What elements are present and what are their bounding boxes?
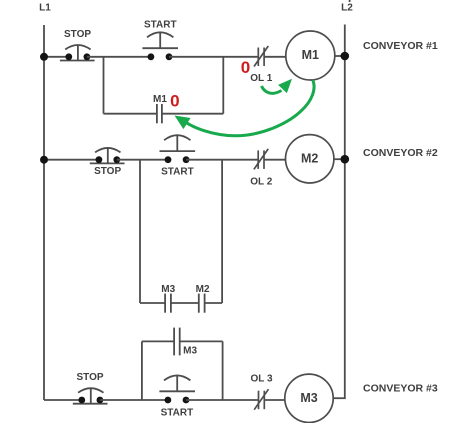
wire rung2: motor M2 to right rail xyxy=(334,158,345,160)
svg-text:M3: M3 xyxy=(183,346,197,357)
contact M3 seal-in (NO) box3 xyxy=(174,328,180,356)
green arrow small (OL1 toward motor M1) xyxy=(262,79,293,94)
motor M3 xyxy=(285,374,333,422)
pushbutton STOP PB1 (NC) rung1 xyxy=(60,45,95,61)
right rail L2 xyxy=(344,25,346,399)
overload contact OL3 (NC) xyxy=(254,389,268,410)
wire rung3: START to OL3 xyxy=(186,399,259,401)
junction dot left rail rung1 xyxy=(40,53,48,61)
wire branch2 bottom right xyxy=(205,302,223,304)
wire rung3: STOP to START xyxy=(100,399,167,401)
wire box3 right vertical xyxy=(222,341,224,400)
wire rung1: OL1 to motor M1 xyxy=(264,56,286,58)
svg-text:START: START xyxy=(161,166,194,177)
wire branch2 right vertical xyxy=(221,160,223,303)
junction dot right rail rung2 xyxy=(341,155,350,164)
green arrow big (motor M1 to seal-in contact M1) xyxy=(175,80,315,136)
svg-text:OL 2: OL 2 xyxy=(250,176,272,187)
svg-text:START: START xyxy=(161,408,194,419)
svg-text:L1: L1 xyxy=(39,2,51,13)
svg-text:M2: M2 xyxy=(301,151,318,165)
svg-text:M2: M2 xyxy=(196,284,210,295)
wire branch1 bottom right xyxy=(162,113,223,115)
svg-text:M1: M1 xyxy=(302,48,319,62)
svg-text:OL 3: OL 3 xyxy=(250,374,272,385)
pushbutton START PB2 (NO) rung1 xyxy=(142,32,178,60)
wire rung2: START to OL2 xyxy=(186,159,258,161)
wire rung1: rail to STOP xyxy=(44,56,69,58)
motor M1 xyxy=(286,31,335,80)
wire rung3: OL3 to motor M3 xyxy=(264,399,285,401)
overload contact OL1 (NC) xyxy=(254,46,268,67)
wire branch2 between contacts xyxy=(171,302,199,304)
svg-text:START: START xyxy=(144,20,177,31)
junction dot left rail rung2 xyxy=(40,156,48,164)
svg-text:0: 0 xyxy=(241,58,250,77)
wire branch1 left vertical xyxy=(103,57,105,114)
svg-text:OL 1: OL 1 xyxy=(250,73,272,84)
wire rung1: START to OL1 xyxy=(169,56,258,58)
pushbutton STOP PB5 (NC) rung3 xyxy=(73,388,108,404)
svg-text:L2: L2 xyxy=(341,2,353,13)
svg-text:M1: M1 xyxy=(153,94,167,105)
svg-text:CONVEYOR #1: CONVEYOR #1 xyxy=(363,40,438,52)
wire branch2 left vertical xyxy=(139,160,141,303)
wire rung3: rail to STOP xyxy=(44,399,82,401)
svg-text:STOP: STOP xyxy=(64,29,91,40)
wire branch1 bottom left xyxy=(104,113,157,115)
pushbutton START PB6 (NO) rung3 xyxy=(159,375,195,403)
contact M3 (NO) branch2 xyxy=(165,294,171,313)
overload contact OL2 (NC) xyxy=(254,149,268,170)
pushbutton START PB4 (NO) rung2 xyxy=(160,135,196,163)
svg-text:CONVEYOR #3: CONVEYOR #3 xyxy=(363,383,438,395)
svg-text:M3: M3 xyxy=(300,391,317,405)
wire rung1: STOP to START xyxy=(87,56,150,58)
right rail stub above L2 xyxy=(349,0,351,2)
left rail L1 xyxy=(43,25,45,400)
pushbutton STOP PB3 (NC) rung2 xyxy=(90,148,125,164)
wire rung3: motor M3 to right rail xyxy=(333,397,346,399)
svg-text:STOP: STOP xyxy=(94,166,121,177)
svg-text:CONVEYOR #2: CONVEYOR #2 xyxy=(363,147,438,159)
wire box3 left vertical xyxy=(141,341,143,400)
wire box3 top right xyxy=(180,340,223,342)
wire rung1: motor M1 to right rail xyxy=(335,55,345,57)
motor M2 xyxy=(286,135,334,183)
svg-text:M3: M3 xyxy=(161,284,175,295)
contact M2 (NO) branch2 xyxy=(199,294,205,313)
junction dot right rail rung1 xyxy=(341,52,350,61)
wire branch2 bottom left xyxy=(140,302,165,304)
contact M1 seal-in (NO) xyxy=(157,104,162,123)
svg-text:0: 0 xyxy=(170,92,179,111)
wire rung2: STOP to START xyxy=(117,159,168,161)
svg-text:STOP: STOP xyxy=(76,372,103,383)
wire branch1 right vertical xyxy=(222,57,224,114)
wire box3 top left xyxy=(142,340,174,342)
wire rung2: OL2 to motor M2 xyxy=(264,159,286,161)
wire rung2: rail to STOP xyxy=(44,159,99,161)
